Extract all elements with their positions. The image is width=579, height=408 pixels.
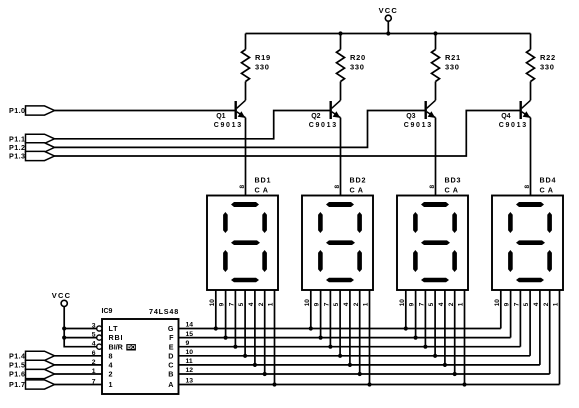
- wire: BD3 pin 9 to segment bus: [409, 290, 416, 338]
- wire: BD1 pin 9 to segment bus: [219, 290, 226, 338]
- svg-text:IC9: IC9: [102, 308, 113, 315]
- wire: VCC branch to IC9 pin 3 (LT): [64, 328, 97, 330]
- junction: BD3 pin 9 / bus: [414, 336, 418, 340]
- svg-text:8: 8: [109, 351, 114, 360]
- wire: BD1 pin 4 to segment bus: [248, 290, 255, 365]
- segment C: [262, 250, 267, 272]
- svg-text:BD1: BD1: [255, 176, 272, 185]
- svg-text:10: 10: [494, 299, 501, 307]
- svg-text:9: 9: [409, 302, 416, 306]
- svg-text:2: 2: [448, 302, 455, 306]
- junction: BD2 pin 5 / bus: [338, 354, 342, 358]
- svg-text:CA: CA: [445, 186, 461, 195]
- svg-text:CA: CA: [540, 186, 556, 195]
- segment G: [516, 240, 545, 245]
- svg-text:1: 1: [553, 302, 560, 306]
- wire: P1.7 to IC9 pin 7: [55, 384, 103, 386]
- segment F: [508, 212, 513, 233]
- wire: segment bus B (pin 12): [179, 373, 550, 375]
- svg-text:B: B: [168, 370, 173, 379]
- segment A: [516, 202, 544, 207]
- wire: Q3 emitter to BD3 pin 8: [435, 118, 437, 196]
- wire: P1.6 to IC9 pin 1: [55, 373, 103, 375]
- resistor R22 330: [527, 34, 556, 101]
- segment F: [223, 212, 228, 233]
- svg-text:1: 1: [363, 302, 370, 306]
- wire: BD1 pin 7 to segment bus: [229, 290, 236, 347]
- junction: BD2 pin 9 / bus: [319, 336, 323, 340]
- svg-text:5: 5: [238, 302, 245, 306]
- segment B: [452, 212, 457, 233]
- junction: BD1 pin 5 / bus: [243, 354, 247, 358]
- svg-text:Q4: Q4: [501, 113, 510, 120]
- segment A: [326, 202, 354, 207]
- transistor Q2 C9013: [309, 100, 341, 129]
- segment G: [421, 240, 450, 245]
- svg-text:P1.3: P1.3: [9, 152, 25, 161]
- wire: VCC to IC9 pin 4 (BI/RBO): [64, 307, 97, 347]
- junction: BD1 pin 4 / bus: [253, 363, 257, 367]
- wire: P1.4 to IC9 pin 6: [55, 355, 103, 357]
- svg-text:BO: BO: [127, 345, 135, 351]
- segment E: [508, 250, 513, 272]
- segment C: [547, 250, 552, 272]
- transistor Q3 C9013: [404, 100, 436, 129]
- svg-text:C9013: C9013: [214, 122, 243, 129]
- power symbol VCC (top): [379, 6, 398, 34]
- wire: BD4 pin 4 to segment bus: [533, 290, 540, 365]
- svg-text:7: 7: [324, 302, 331, 306]
- junction: BD2 pin 4 / bus: [348, 363, 352, 367]
- svg-text:1: 1: [268, 302, 275, 306]
- svg-text:330: 330: [350, 62, 365, 71]
- wire: segment bus D (pin 10): [179, 355, 531, 357]
- svg-text:330: 330: [255, 62, 270, 71]
- svg-text:CA: CA: [350, 186, 366, 195]
- wire: segment bus E (pin 9): [179, 346, 521, 348]
- svg-text:CA: CA: [255, 186, 271, 195]
- wire: BD1 pin 2 to segment bus: [258, 290, 265, 374]
- wire: BD4 pin 5 to segment bus: [523, 290, 530, 356]
- svg-text:8: 8: [429, 185, 436, 189]
- svg-text:9: 9: [314, 302, 321, 306]
- svg-text:G: G: [168, 324, 174, 333]
- junction: VCC stem / pin 5 branch: [62, 336, 66, 340]
- svg-text:1: 1: [458, 302, 465, 306]
- junction: BD2 pin 1 / bus: [367, 382, 371, 386]
- wire: BD4 pin 9 to segment bus: [504, 290, 511, 338]
- svg-text:RBI: RBI: [109, 333, 124, 342]
- segment D: [231, 278, 259, 283]
- svg-text:C9013: C9013: [309, 122, 338, 129]
- junction: BD1 pin 10 / bus: [214, 326, 218, 330]
- port P1.5: [9, 360, 55, 369]
- segment G: [231, 240, 260, 245]
- svg-text:74LS48: 74LS48: [149, 307, 179, 316]
- wire: segment bus F (pin 15): [179, 337, 511, 339]
- wire: BD2 pin 1 to segment bus: [363, 290, 370, 385]
- svg-text:P1.0: P1.0: [9, 106, 25, 115]
- wire: P1.0 to Q1 base: [55, 110, 236, 112]
- junction: BD1 pin 2 / bus: [263, 372, 267, 376]
- svg-text:C: C: [168, 361, 173, 370]
- port P1.2: [9, 143, 55, 152]
- svg-text:5: 5: [428, 302, 435, 306]
- junction: rail / R21: [433, 31, 437, 35]
- segment E: [318, 250, 323, 272]
- port P1.7: [9, 380, 55, 389]
- svg-text:1: 1: [109, 380, 114, 389]
- wire: P1.2 to Q3 base: [55, 111, 426, 148]
- svg-text:C9013: C9013: [499, 122, 528, 129]
- svg-text:VCC: VCC: [52, 291, 71, 300]
- junction: BD2 pin 7 / bus: [328, 345, 332, 349]
- svg-text:7: 7: [514, 302, 521, 306]
- transistor Q1 C9013: [214, 100, 246, 129]
- wire: BD4 pin 1 to segment bus: [553, 290, 560, 385]
- svg-text:P1.5: P1.5: [9, 361, 25, 370]
- port P1.1: [9, 134, 55, 143]
- wire: BD4 pin 7 to segment bus: [514, 290, 521, 347]
- display BD4 (7-segment, common anode): [492, 176, 563, 290]
- svg-text:BI/R: BI/R: [109, 342, 124, 351]
- wire: BD3 pin 7 to segment bus: [419, 290, 426, 347]
- wire: segment bus C (pin 11): [179, 364, 540, 366]
- svg-text:P1.7: P1.7: [9, 380, 25, 389]
- svg-text:10: 10: [209, 299, 216, 307]
- svg-text:8: 8: [334, 185, 341, 189]
- port P1.4: [9, 351, 55, 360]
- svg-text:Q2: Q2: [311, 113, 320, 120]
- svg-text:5: 5: [523, 302, 530, 306]
- svg-text:C9013: C9013: [404, 122, 433, 129]
- segment B: [357, 212, 362, 233]
- wire: BD3 pin 4 to segment bus: [438, 290, 445, 365]
- wire: VCC branch to IC9 pin 5 (RBI): [64, 337, 97, 339]
- svg-text:7: 7: [229, 302, 236, 306]
- wire: P1.1 to Q2 base: [55, 111, 331, 139]
- svg-text:LT: LT: [109, 324, 119, 333]
- transistor Q4 C9013: [499, 100, 531, 129]
- svg-text:2: 2: [109, 370, 114, 379]
- wire: segment bus A (pin 13): [179, 384, 560, 386]
- junction: BD2 pin 10 / bus: [309, 326, 313, 330]
- svg-text:330: 330: [445, 62, 460, 71]
- wire: BD1 pin 10 to segment bus: [209, 290, 216, 329]
- svg-text:2: 2: [258, 302, 265, 306]
- svg-text:BD3: BD3: [445, 176, 462, 185]
- port P1.6: [9, 369, 55, 378]
- svg-text:D: D: [168, 351, 173, 360]
- segment F: [318, 212, 323, 233]
- svg-text:Q3: Q3: [406, 113, 415, 120]
- wire: Q1 emitter to BD1 pin 8: [245, 118, 247, 196]
- wire: segment bus G (pin 14): [179, 328, 501, 330]
- segment D: [326, 278, 354, 283]
- svg-text:P1.4: P1.4: [9, 351, 25, 360]
- svg-text:BD4: BD4: [540, 176, 557, 185]
- svg-text:10: 10: [399, 299, 406, 307]
- junction: BD1 pin 9 / bus: [224, 336, 228, 340]
- svg-text:E: E: [169, 342, 174, 351]
- svg-text:2: 2: [353, 302, 360, 306]
- segment A: [231, 202, 259, 207]
- junction: rail / VCC stem: [386, 31, 390, 35]
- wire: VCC power rail: [246, 33, 531, 35]
- junction: BD3 pin 1 / bus: [462, 382, 466, 386]
- svg-text:4: 4: [438, 302, 445, 306]
- segment D: [516, 278, 544, 283]
- svg-text:4: 4: [533, 302, 540, 306]
- svg-text:F: F: [169, 333, 174, 342]
- junction: BD2 pin 2 / bus: [358, 372, 362, 376]
- svg-text:Q1: Q1: [216, 113, 225, 120]
- power symbol VCC (at IC9): [52, 291, 71, 307]
- wire: BD4 pin 2 to segment bus: [543, 290, 550, 374]
- svg-text:2: 2: [543, 302, 550, 306]
- svg-text:4: 4: [109, 361, 114, 370]
- segment C: [357, 250, 362, 272]
- wire: BD1 pin 5 to segment bus: [238, 290, 245, 356]
- wire: BD3 pin 1 to segment bus: [458, 290, 465, 385]
- svg-text:5: 5: [333, 302, 340, 306]
- wire: BD3 pin 5 to segment bus: [428, 290, 435, 356]
- svg-text:A: A: [168, 380, 173, 389]
- wire: BD3 pin 10 to segment bus: [399, 290, 406, 329]
- wire: BD2 pin 10 to segment bus: [304, 290, 311, 329]
- segment B: [262, 212, 267, 233]
- svg-text:R21: R21: [445, 53, 461, 62]
- port P1.0: [9, 106, 55, 115]
- display BD1 (7-segment, common anode): [207, 176, 278, 290]
- junction: BD3 pin 7 / bus: [423, 345, 427, 349]
- wire: BD1 pin 1 to segment bus: [268, 290, 275, 385]
- segment E: [223, 250, 228, 272]
- wire: P1.3 to Q4 base: [55, 111, 521, 157]
- segment A: [421, 202, 449, 207]
- junction: BD1 pin 1 / bus: [272, 382, 276, 386]
- wire: BD2 pin 2 to segment bus: [353, 290, 360, 374]
- svg-text:R22: R22: [540, 53, 556, 62]
- svg-text:R20: R20: [350, 53, 366, 62]
- wire: BD2 pin 5 to segment bus: [333, 290, 340, 356]
- resistor R21 330: [432, 34, 461, 101]
- junction: rail / R20: [338, 31, 342, 35]
- svg-text:330: 330: [540, 62, 555, 71]
- svg-text:7: 7: [419, 302, 426, 306]
- svg-text:9: 9: [219, 302, 226, 306]
- svg-text:P1.6: P1.6: [9, 370, 25, 379]
- display BD3 (7-segment, common anode): [397, 176, 468, 290]
- svg-text:R19: R19: [255, 53, 271, 62]
- svg-text:BD2: BD2: [350, 176, 367, 185]
- wire: BD3 pin 2 to segment bus: [448, 290, 455, 374]
- resistor R20 330: [337, 34, 366, 101]
- wire: P1.5 to IC9 pin 2: [55, 364, 103, 366]
- junction: BD3 pin 2 / bus: [453, 372, 457, 376]
- IC U9 (IC9 74LS48 BCD to 7-segment decoder): [92, 307, 194, 394]
- svg-text:8: 8: [524, 185, 531, 189]
- junction: BD3 pin 5 / bus: [433, 354, 437, 358]
- segment D: [421, 278, 449, 283]
- junction: BD1 pin 7 / bus: [233, 345, 237, 349]
- wire: BD2 pin 4 to segment bus: [343, 290, 350, 365]
- wire: Q4 emitter to BD4 pin 8: [530, 118, 532, 196]
- junction: VCC stem / pin 3 branch: [62, 326, 66, 330]
- port P1.3: [9, 151, 55, 160]
- segment F: [413, 212, 418, 233]
- svg-text:4: 4: [343, 302, 350, 306]
- svg-text:10: 10: [304, 299, 311, 307]
- wire: BD2 pin 9 to segment bus: [314, 290, 321, 338]
- svg-text:8: 8: [239, 185, 246, 189]
- junction: BD3 pin 4 / bus: [443, 363, 447, 367]
- wire: BD4 pin 10 to segment bus: [494, 290, 501, 329]
- segment C: [452, 250, 457, 272]
- wire: BD2 pin 7 to segment bus: [324, 290, 331, 347]
- resistor R19 330: [242, 34, 271, 101]
- junction: BD3 pin 10 / bus: [404, 326, 408, 330]
- svg-text:VCC: VCC: [379, 6, 398, 15]
- svg-text:9: 9: [504, 302, 511, 306]
- segment B: [547, 212, 552, 233]
- wire: Q2 emitter to BD2 pin 8: [340, 118, 342, 196]
- svg-text:4: 4: [248, 302, 255, 306]
- display BD2 (7-segment, common anode): [302, 176, 373, 290]
- segment G: [326, 240, 355, 245]
- segment E: [413, 250, 418, 272]
